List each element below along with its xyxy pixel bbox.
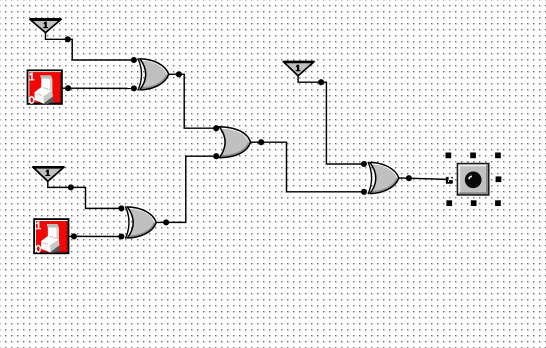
- node C junction dot: [318, 79, 324, 85]
- or gate U2 : X=216.2 C=142.2: [219, 127, 261, 158]
- wire node C to U4 input 1: [321, 82, 364, 164]
- wire U1 to U2 input 1: [179, 74, 216, 128]
- selection handle bottom-right: [495, 200, 501, 206]
- selection handle middle-left with D1 pin marker: [446, 177, 453, 184]
- S2 pin dot: [71, 233, 77, 239]
- wire node B to U3 input 1: [71, 187, 122, 208]
- switch S1: [27, 69, 63, 104]
- constant 1 source V1: [30, 19, 62, 33]
- wire node A to U1 input 1: [68, 39, 134, 60]
- wire U4 to LED D1 input pin: [409, 178, 447, 179]
- U1 output dot: [176, 71, 182, 77]
- U2 input 2 terminal dot: [213, 153, 219, 159]
- wire S2 to U3 input 2: [74, 235, 121, 237]
- wire V1 to node A: [46, 33, 68, 40]
- S1 output pin: [63, 87, 68, 89]
- switch S2: [33, 218, 69, 254]
- node A junction dot: [65, 36, 71, 42]
- selection handle top-left: [446, 153, 452, 159]
- rocker lever of S1: [35, 76, 53, 104]
- S1 pin dot: [65, 85, 71, 91]
- U4 input 1 terminal dot: [361, 161, 367, 167]
- U2 output dot: [258, 139, 264, 145]
- U1 input 1 terminal dot: [131, 57, 137, 63]
- S2 output pin: [70, 235, 75, 237]
- U3 input 1 terminal dot: [118, 205, 124, 211]
- selection handle middle-right: [496, 176, 502, 182]
- U1 input 2 terminal dot: [131, 85, 137, 91]
- xor gate U1 : X=133.9 C=74.3: [138, 58, 179, 90]
- wire U3 to U2 input 2: [166, 156, 216, 222]
- U4 output dot: [406, 175, 412, 181]
- selection handle bottom-middle: [471, 200, 477, 206]
- selection handle bottom-left: [446, 200, 452, 206]
- LED lamp circle: [465, 171, 482, 188]
- rocker lever of S2: [42, 224, 60, 252]
- wire S1 to U1 input 2: [68, 87, 134, 89]
- selection handle top-right: [495, 153, 501, 159]
- selection handle top-middle: [470, 153, 476, 159]
- U4 input 2 terminal dot: [361, 189, 367, 195]
- node B junction dot: [68, 184, 74, 190]
- U3 input 2 terminal dot: [118, 233, 124, 239]
- U2 input 1 terminal dot: [213, 125, 219, 131]
- U3 output dot: [163, 219, 169, 225]
- wire V2 to node B: [48, 181, 71, 187]
- wire U2 to U4 input 2: [261, 142, 364, 192]
- constant 1 source V2: [32, 167, 64, 181]
- xor gate U3 : X=121.4 C=222.45: [125, 206, 166, 238]
- wire V3 to node C: [298, 76, 321, 82]
- LED output D1: [458, 164, 489, 195]
- xor gate U4 : X=364 C=178: [368, 162, 409, 194]
- constant 1 source V3: [283, 62, 315, 76]
